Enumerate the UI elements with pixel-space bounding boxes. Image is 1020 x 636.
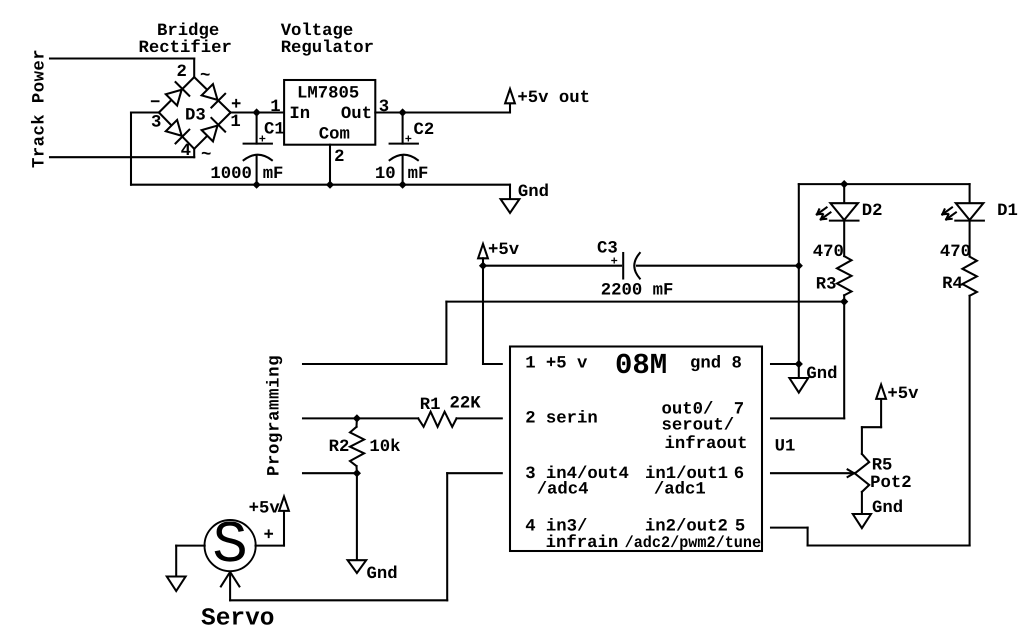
- label Gnd main: [518, 183, 549, 202]
- svg-text:R4: R4: [942, 275, 963, 294]
- wire node to chip pin7: [843, 302, 845, 419]
- label C2 value 10 mF: [375, 165, 428, 184]
- svg-text:+5v out: +5v out: [517, 89, 590, 108]
- wire regulator Out: [375, 111, 510, 113]
- label C3: [597, 240, 618, 269]
- svg-text:/adc4: /adc4: [537, 481, 589, 500]
- label Voltage Regulator title: [281, 22, 374, 58]
- svg-text:Regulator: Regulator: [281, 39, 374, 58]
- ground symbol servo: [167, 577, 186, 592]
- svg-text:serout/: serout/: [662, 416, 735, 435]
- svg-text:Gnd: Gnd: [872, 499, 903, 518]
- power +5v out arrow: [505, 89, 515, 113]
- svg-text:Pot2: Pot2: [870, 474, 911, 493]
- capacitor C3: [623, 253, 640, 279]
- label Bridge Rectifier title: [139, 22, 232, 58]
- label C2: [405, 121, 435, 146]
- wire programming bottom lead: [303, 472, 357, 474]
- svg-text:mF: mF: [263, 165, 284, 184]
- label servo S: [212, 512, 247, 579]
- svg-text:+5v: +5v: [488, 241, 520, 260]
- wire programming top lead: [303, 363, 446, 365]
- svg-text:Rectifier: Rectifier: [139, 39, 232, 58]
- svg-text:−: −: [150, 94, 160, 113]
- wire +5v to chip pin1: [482, 266, 484, 364]
- label chip pin2 serin and pin7 out0: [525, 401, 747, 455]
- svg-text:R5: R5: [872, 457, 893, 476]
- resistor R2: [350, 414, 364, 477]
- wire chip pin8 to ground: [771, 363, 799, 365]
- label LM7805 pins and names: [270, 85, 389, 167]
- svg-text:+5v: +5v: [249, 499, 281, 518]
- resistor R1: [418, 412, 456, 427]
- svg-text:Servo: Servo: [201, 606, 275, 633]
- svg-text:Track Power: Track Power: [31, 49, 50, 168]
- svg-text:470: 470: [813, 243, 844, 262]
- svg-text:+5v: +5v: [887, 385, 919, 404]
- capacitor C2: [390, 108, 418, 188]
- svg-text:~: ~: [201, 146, 211, 165]
- bridge rectifier D3: [159, 77, 231, 149]
- wire R5 to ground: [861, 492, 863, 514]
- svg-text:Gnd: Gnd: [367, 565, 398, 584]
- svg-text:2: 2: [334, 148, 344, 167]
- label R3: [816, 275, 837, 294]
- wire programming node horizontal: [446, 301, 844, 303]
- svg-text:Com: Com: [319, 126, 350, 145]
- wire R3 to node: [843, 295, 845, 301]
- label R1 22K: [420, 394, 481, 415]
- svg-text:470: 470: [940, 243, 971, 262]
- svg-text:C1: C1: [264, 121, 285, 140]
- label U1: [775, 438, 796, 457]
- bridge pin labels: [150, 63, 241, 165]
- wire servo signal to chip pin3: [229, 572, 231, 600]
- svg-text:4: 4: [181, 142, 191, 161]
- wire bridge minus to ground rail: [131, 111, 159, 113]
- svg-text:~: ~: [200, 67, 210, 86]
- label Gnd R5: [872, 499, 903, 518]
- svg-text:S: S: [212, 512, 247, 579]
- svg-text:D3: D3: [185, 107, 206, 126]
- wire servo right to +5v: [256, 545, 285, 547]
- wire R1 to chip pin2: [457, 417, 502, 419]
- wire C3 to LED gnd riser: [637, 265, 799, 267]
- label Servo: [201, 606, 275, 633]
- potentiometer R5: [855, 399, 881, 492]
- label C1: [259, 121, 285, 147]
- svg-text:3: 3: [379, 98, 389, 117]
- svg-text:Programming: Programming: [266, 355, 285, 476]
- svg-text:/adc2/pwm2/tune: /adc2/pwm2/tune: [625, 534, 762, 552]
- wire bridge plus to regulator In: [231, 111, 285, 113]
- svg-text:3: 3: [151, 113, 161, 132]
- label +5v chip supply: [488, 241, 520, 260]
- svg-text:+: +: [611, 254, 618, 268]
- label R3 value 470: [813, 243, 844, 262]
- label C1 value 1000 mF: [210, 165, 283, 184]
- svg-text:2: 2: [177, 63, 187, 82]
- wire LED top rail: [799, 183, 970, 185]
- label +5v pot: [887, 385, 919, 404]
- wire track power top lead: [50, 57, 194, 59]
- svg-text:7: 7: [734, 401, 744, 420]
- label Gnd chip pin8: [806, 365, 837, 384]
- power +5v arrow servo: [279, 497, 289, 511]
- label R4 value 470: [940, 243, 971, 262]
- svg-text:R2: R2: [329, 438, 350, 457]
- wire +5v node to C3: [483, 265, 621, 267]
- wire servo left to ground: [176, 545, 205, 547]
- label chip pin4 in3 and pin5 in2: [525, 517, 761, 553]
- label 08M: [615, 349, 667, 382]
- label D1: [997, 202, 1018, 221]
- label C3 value 2200 mF: [601, 281, 674, 300]
- svg-text:gnd 8: gnd 8: [690, 355, 742, 374]
- svg-text:22K: 22K: [450, 394, 482, 413]
- LED D2: [817, 184, 859, 256]
- svg-text:/adc1: /adc1: [654, 481, 706, 500]
- svg-text:1 +5 v: 1 +5 v: [525, 355, 588, 374]
- label +5v out: [517, 89, 590, 108]
- label chip pin1 +5v and pin8 gnd: [525, 355, 742, 374]
- label Gnd R2: [367, 565, 398, 584]
- voltage regulator U LM7805 box: [284, 80, 375, 145]
- svg-text:1000: 1000: [210, 165, 251, 184]
- label +5v servo: [249, 499, 281, 545]
- label D2: [862, 202, 883, 221]
- servo signal input arrow: [221, 572, 230, 587]
- svg-text:Gnd: Gnd: [806, 365, 837, 384]
- wire regulator Com to ground rail: [329, 145, 331, 185]
- svg-text:In: In: [289, 105, 310, 124]
- resistor R4: [962, 257, 977, 296]
- wire R4 to chip pin5: [969, 296, 971, 546]
- wire ground rail: [131, 184, 510, 186]
- label chip pin3 in4 and pin6 in1: [525, 465, 744, 500]
- wire programming middle lead to serin: [303, 417, 418, 419]
- svg-text:Gnd: Gnd: [518, 183, 549, 202]
- label Track Power: [31, 49, 50, 168]
- LED D1: [942, 184, 984, 256]
- svg-text:2200 mF: 2200 mF: [601, 281, 674, 300]
- label R4: [942, 275, 963, 294]
- svg-text:C2: C2: [414, 121, 435, 140]
- servo M1 circle: [205, 520, 256, 571]
- resistor R3: [837, 256, 852, 295]
- svg-text:D2: D2: [862, 202, 883, 221]
- ground symbol main rail: [501, 185, 520, 213]
- svg-text:2 serin: 2 serin: [525, 410, 598, 429]
- svg-text:+: +: [259, 132, 266, 146]
- power +5v arrow pot: [876, 385, 886, 399]
- label R5 Pot2: [870, 457, 911, 493]
- label Programming: [266, 355, 285, 476]
- svg-text:10k: 10k: [369, 438, 400, 457]
- svg-text:R1: R1: [420, 396, 441, 415]
- svg-text:R3: R3: [816, 275, 837, 294]
- capacitor C1: [244, 108, 272, 188]
- svg-text:D1: D1: [997, 202, 1018, 221]
- label R2 10k: [329, 438, 401, 457]
- svg-text:1: 1: [230, 113, 240, 132]
- svg-text:+: +: [264, 527, 274, 546]
- ground symbol R2: [348, 560, 367, 573]
- svg-text:10: 10: [375, 165, 396, 184]
- svg-text:1: 1: [270, 98, 280, 117]
- wire chip pin6 to pot wiper: [771, 472, 854, 474]
- ground symbol chip pin8: [789, 364, 808, 393]
- svg-text:+: +: [405, 132, 412, 146]
- svg-text:Out: Out: [341, 105, 372, 124]
- svg-text:infraout: infraout: [665, 435, 748, 454]
- svg-text:mF: mF: [408, 165, 429, 184]
- wire track power bottom lead: [50, 156, 194, 158]
- svg-text:08M: 08M: [615, 349, 667, 382]
- svg-text:LM7805: LM7805: [297, 85, 359, 104]
- svg-text:6: 6: [734, 465, 744, 484]
- svg-text:U1: U1: [775, 438, 796, 457]
- power +5v arrow chip supply: [478, 244, 488, 270]
- svg-text:infrain: infrain: [546, 534, 619, 553]
- IC U1 08M box: [510, 347, 762, 552]
- ground symbol R5: [853, 514, 871, 528]
- wire R2 to ground: [356, 473, 358, 560]
- label D3: [185, 107, 206, 126]
